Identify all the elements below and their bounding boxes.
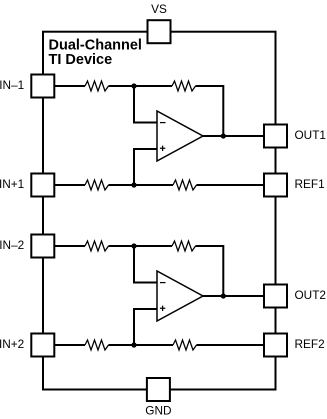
pin GND bbox=[147, 378, 170, 401]
output node dot ch2 bbox=[221, 293, 226, 298]
resistor IN+2 input bbox=[85, 340, 109, 350]
wire ref resistor to REF1 bbox=[197, 184, 265, 186]
resistor IN-1 input bbox=[85, 81, 109, 91]
wire node A to inverting input (ch1) bbox=[134, 86, 157, 123]
wire node A to feedback resistor (ch1) bbox=[109, 85, 173, 87]
pin VS bbox=[148, 20, 171, 43]
svg-text:IN–2: IN–2 bbox=[0, 238, 24, 252]
resistor ref ch2 bbox=[173, 340, 197, 350]
svg-text:TI Device: TI Device bbox=[49, 52, 113, 68]
wire node D to ref resistor (ch2) bbox=[109, 344, 174, 346]
wire op-amp output to OUT1 bbox=[203, 135, 264, 137]
svg-text:OUT2: OUT2 bbox=[295, 288, 326, 302]
node D junction dot bbox=[131, 342, 136, 347]
pin IN+1 bbox=[31, 174, 54, 197]
resistor feedback ch1 bbox=[172, 81, 196, 91]
pin IN-2 bbox=[31, 235, 54, 258]
wire op-amp output to OUT2 bbox=[203, 295, 264, 297]
wire node C to feedback resistor (ch2) bbox=[109, 245, 173, 247]
wire node B to ref resistor (ch1) bbox=[109, 184, 174, 186]
op-amp A2 bbox=[157, 271, 203, 321]
pin OUT1 bbox=[264, 125, 287, 148]
wire node D to non-inverting input (ch2) bbox=[134, 309, 157, 345]
svg-text:IN+2: IN+2 bbox=[0, 337, 24, 351]
svg-text:Dual-Channel: Dual-Channel bbox=[49, 37, 142, 53]
svg-text:VS: VS bbox=[151, 2, 167, 16]
svg-text:IN–1: IN–1 bbox=[0, 78, 24, 92]
pin IN-1 bbox=[31, 75, 54, 98]
wire node C to inverting input (ch2) bbox=[134, 246, 157, 283]
resistor IN+1 input bbox=[85, 180, 109, 190]
node B junction dot bbox=[131, 182, 136, 187]
svg-text:OUT1: OUT1 bbox=[295, 128, 326, 142]
output node dot ch1 bbox=[221, 133, 226, 138]
node C junction dot bbox=[131, 243, 136, 248]
wire node B to non-inverting input (ch1) bbox=[134, 149, 157, 185]
op-amp A1 bbox=[157, 111, 203, 161]
svg-text:REF2: REF2 bbox=[295, 337, 325, 351]
resistor ref ch1 bbox=[173, 180, 197, 190]
wire feedback resistor to output node (ch1) bbox=[196, 86, 224, 136]
device outline bbox=[43, 32, 276, 390]
svg-text:REF1: REF1 bbox=[295, 177, 325, 191]
pin REF2 bbox=[264, 334, 287, 357]
pin IN+2 bbox=[31, 334, 54, 357]
resistor feedback ch2 bbox=[172, 241, 196, 251]
wire ref resistor to REF2 bbox=[197, 344, 265, 346]
wire IN+1 to input resistor (ch1) bbox=[54, 184, 85, 186]
pin OUT2 bbox=[264, 285, 287, 308]
svg-text:GND: GND bbox=[145, 404, 171, 418]
wire feedback resistor to output node (ch2) bbox=[196, 246, 224, 296]
wire IN-1 to input resistor (ch1) bbox=[54, 85, 85, 87]
svg-text:IN+1: IN+1 bbox=[0, 177, 24, 191]
pin REF1 bbox=[264, 174, 287, 197]
wire IN-2 to input resistor (ch2) bbox=[54, 245, 85, 247]
wire IN+2 to input resistor (ch2) bbox=[54, 344, 85, 346]
resistor IN-2 input bbox=[85, 241, 109, 251]
node A junction dot bbox=[131, 83, 136, 88]
